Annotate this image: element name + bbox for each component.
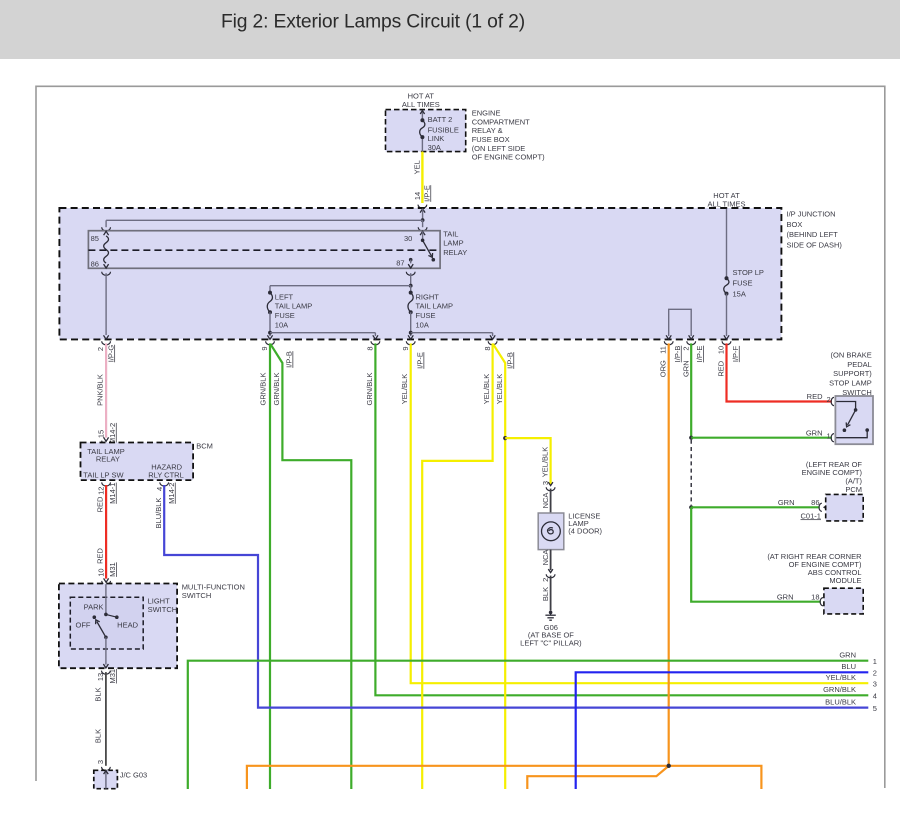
svg-text:12: 12 xyxy=(96,487,105,495)
svg-text:GRN/BLK: GRN/BLK xyxy=(259,373,268,406)
relay K1 contact, pins 30/87 xyxy=(396,231,435,268)
svg-text:GRN/BLK: GRN/BLK xyxy=(365,373,374,406)
connector I/P-E pin 2 exit (green) xyxy=(681,341,704,377)
svg-text:13: 13 xyxy=(96,673,105,681)
svg-text:SWITCH: SWITCH xyxy=(182,591,212,600)
svg-text:5: 5 xyxy=(873,704,877,713)
svg-text:COMPARTMENT: COMPARTMENT xyxy=(472,117,530,126)
svg-text:BOX: BOX xyxy=(787,220,803,229)
stop lamp switch SW1 (ON BRAKE PEDAL SUPPORT) xyxy=(829,350,873,444)
svg-text:STOP LP: STOP LP xyxy=(733,268,764,277)
svg-text:86: 86 xyxy=(91,260,99,269)
svg-text:GRN: GRN xyxy=(777,592,794,601)
wire YEL/BLK pair-B from I/P-B 8 through license lamp tap down to page bottom xyxy=(493,344,505,789)
svg-text:(ON BRAKE: (ON BRAKE xyxy=(831,350,872,359)
wire YEL/BLK from I/P-E 9 to right-edge connector 3 xyxy=(400,343,868,683)
svg-text:ORG: ORG xyxy=(659,360,668,377)
svg-text:RELAY: RELAY xyxy=(96,455,120,464)
svg-text:FUSE: FUSE xyxy=(275,311,295,320)
connector I/P-G pin 2 exit xyxy=(96,341,115,362)
svg-text:30A: 30A xyxy=(428,143,441,152)
svg-text:87: 87 xyxy=(396,258,404,267)
splice S4 on ORG wire xyxy=(667,764,671,768)
wire YEL from fusible link to I/P junction box pin 14 xyxy=(412,152,431,209)
svg-text:85: 85 xyxy=(91,234,99,243)
wire RED from BCM 12 to multi-function switch pin 10 xyxy=(95,485,117,585)
splice S1 on GRN wire xyxy=(689,436,693,440)
svg-text:BLU/BLK: BLU/BLK xyxy=(154,498,163,529)
svg-text:BCM: BCM xyxy=(196,441,213,450)
wire relay pin 87 to tail lamp fuses xyxy=(406,272,415,286)
svg-text:2: 2 xyxy=(541,578,550,582)
node B: fuse feed split xyxy=(409,284,413,288)
lamp E1 LICENSE LAMP (4 DOOR) xyxy=(538,512,602,550)
svg-text:RELAY &: RELAY & xyxy=(472,126,503,135)
module PCM (A/T, LEFT REAR OF ENGINE COMPT) xyxy=(802,460,864,521)
wire PNK/BLK from I/P-G 2 to BCM pin 15 xyxy=(96,343,117,444)
wire relay pin 86 to I/P-G exit xyxy=(102,272,111,340)
svg-text:TAIL LAMP: TAIL LAMP xyxy=(275,302,313,311)
svg-text:LEFT "C" PILLAR): LEFT "C" PILLAR) xyxy=(520,638,582,647)
svg-text:TAIL: TAIL xyxy=(443,230,458,239)
bus link inside I/P box (pins 11 and 2) xyxy=(666,309,694,339)
wire ORG from splice S4 right branch down xyxy=(669,766,762,789)
MFS pin 13 exit M31 xyxy=(96,669,117,684)
svg-text:GRN/BLK: GRN/BLK xyxy=(272,373,281,406)
svg-text:PNK/BLK: PNK/BLK xyxy=(96,374,105,406)
svg-text:ALL TIMES: ALL TIMES xyxy=(708,199,746,208)
wire YEL/BLK from splice S3 to license lamp connector 3 xyxy=(505,438,555,491)
svg-text:9: 9 xyxy=(401,346,410,350)
svg-text:2: 2 xyxy=(827,395,831,404)
svg-text:LINK: LINK xyxy=(428,134,445,143)
module BCM (body control module) xyxy=(81,441,213,480)
wire GRN/BLK from pin 8 to right-edge connector 4 xyxy=(365,343,868,695)
svg-text:30: 30 xyxy=(404,234,412,243)
svg-text:M14-2: M14-2 xyxy=(108,423,117,444)
svg-text:I/P-E: I/P-E xyxy=(422,185,431,202)
wire GRN from splice S2 to ABS control module pin 18 xyxy=(691,507,829,606)
svg-text:HEAD: HEAD xyxy=(117,621,138,630)
svg-text:FUSE BOX: FUSE BOX xyxy=(472,135,510,144)
label HOT AT ALL TIMES (stop lp fuse feed) xyxy=(708,191,746,208)
svg-text:RELAY: RELAY xyxy=(443,248,467,257)
wire BLK from MFS 13 to junction connector G03 xyxy=(94,672,111,770)
svg-text:Fig 2: Exterior Lamps Circuit: Fig 2: Exterior Lamps Circuit (1 of 2) xyxy=(221,12,525,33)
svg-text:18: 18 xyxy=(811,592,819,601)
svg-text:(ON LEFT SIDE: (ON LEFT SIDE xyxy=(472,144,526,153)
svg-text:FUSE: FUSE xyxy=(733,279,753,288)
light switch (inner detail of SW2) xyxy=(70,597,177,649)
svg-text:STOP LAMP: STOP LAMP xyxy=(829,379,872,388)
svg-text:BLK: BLK xyxy=(94,687,103,701)
svg-text:J/C G03: J/C G03 xyxy=(120,770,148,779)
svg-text:11: 11 xyxy=(659,346,668,354)
svg-text:10: 10 xyxy=(96,568,105,576)
svg-text:RED: RED xyxy=(807,392,823,401)
I/P junction box (dashed enclosure) xyxy=(59,208,781,339)
relay K1 coil, pins 85/86 xyxy=(91,231,109,268)
svg-text:SWITCH: SWITCH xyxy=(148,605,178,614)
fuse-box: engine compartment relay &amp; fuse box (BATT 2 fusible link) xyxy=(386,110,466,152)
svg-text:M31: M31 xyxy=(108,562,117,577)
wire GRN/BLK left-A from I/P-B 9 down to page bottom xyxy=(259,343,270,789)
svg-text:BATT 2: BATT 2 xyxy=(428,115,453,124)
svg-text:RED: RED xyxy=(717,360,726,376)
svg-text:LAMP: LAMP xyxy=(443,239,463,248)
switch SW2 MULTI-FUNCTION SWITCH xyxy=(59,583,245,669)
connector I/P-B pin 8 exit (yellow pair) xyxy=(483,341,515,369)
fuse F3 RIGHT TAIL LAMP FUSE 10A xyxy=(408,286,453,330)
svg-text:OFF: OFF xyxy=(76,621,91,630)
fuse F2 LEFT TAIL LAMP FUSE 10A xyxy=(267,291,312,330)
svg-text:14: 14 xyxy=(413,192,422,200)
svg-text:4: 4 xyxy=(155,487,164,491)
svg-text:86: 86 xyxy=(811,498,819,507)
svg-text:BLK: BLK xyxy=(94,729,103,743)
BCM pin 4 exit M14-2 xyxy=(155,482,176,503)
svg-text:GRN: GRN xyxy=(778,498,795,507)
svg-text:TAIL LP SW: TAIL LP SW xyxy=(83,471,124,480)
wire NCA from connector 3 to license lamp xyxy=(541,489,550,513)
wire GRN to right-edge connector 1 xyxy=(188,650,869,789)
wire from node A to relay pin 85 xyxy=(102,220,423,231)
svg-text:GRN/BLK: GRN/BLK xyxy=(823,685,856,694)
connector I/P-B pin 11 exit (orange) xyxy=(659,341,682,377)
svg-text:YEL/BLK: YEL/BLK xyxy=(495,374,504,404)
svg-text:2: 2 xyxy=(96,347,105,351)
svg-text:RED: RED xyxy=(95,548,104,564)
svg-text:10A: 10A xyxy=(416,321,429,330)
svg-text:GRN: GRN xyxy=(681,360,690,377)
junction connector J/C G03 xyxy=(94,770,147,788)
module ABS CONTROL MODULE (AT RIGHT REAR CORNER OF ENGINE COMPT) xyxy=(767,552,863,614)
pin 1 of stop lamp switch xyxy=(827,432,840,442)
wire BLK from connector 2 to ground G06 xyxy=(541,576,550,611)
svg-text:M14-2: M14-2 xyxy=(167,483,176,504)
svg-text:YEL: YEL xyxy=(412,160,421,174)
svg-text:FUSIBLE: FUSIBLE xyxy=(428,125,459,134)
svg-text:GRN: GRN xyxy=(839,650,856,659)
ground G06 (AT BASE OF LEFT "C" PILLAR) xyxy=(520,611,582,648)
svg-text:(4 DOOR): (4 DOOR) xyxy=(568,527,602,536)
label HOT AT ALL TIMES (battery feed) xyxy=(402,92,440,109)
svg-text:9: 9 xyxy=(260,346,269,350)
wire GRN from splice S2 to PCM pin 86 xyxy=(691,498,828,520)
connector I/P-B pin 9 exit (left tail lamps) xyxy=(260,341,294,368)
label ENGINE COMPARTMENT RELAY &amp; FUSE BOX location xyxy=(472,109,545,162)
svg-text:NCA: NCA xyxy=(541,550,550,566)
light switch contacts and wiper xyxy=(93,584,119,668)
wire NCA from license lamp to connector 2 xyxy=(541,550,555,582)
title bar xyxy=(0,0,900,59)
svg-text:RIGHT: RIGHT xyxy=(416,292,440,301)
relay K1 TAIL LAMP RELAY (body) xyxy=(88,230,467,269)
svg-text:PARK: PARK xyxy=(84,603,104,612)
wire from node A down to relay pin 30 xyxy=(418,220,427,231)
svg-text:(BEHIND LEFT: (BEHIND LEFT xyxy=(787,230,839,239)
wire GRN from splice S1 to stop lamp switch pin 1 xyxy=(691,428,832,437)
svg-text:ALL TIMES: ALL TIMES xyxy=(402,100,440,109)
svg-text:M31: M31 xyxy=(108,669,117,684)
svg-text:SUPPORT): SUPPORT) xyxy=(833,369,872,378)
svg-text:RED: RED xyxy=(95,496,104,512)
svg-text:YEL/BLK: YEL/BLK xyxy=(482,374,491,404)
wire RED from I/P-F 10 to stop lamp switch pin 2 xyxy=(727,343,833,401)
svg-text:3: 3 xyxy=(873,679,877,688)
svg-text:2: 2 xyxy=(681,346,690,350)
fuse F1 BATT 2 FUSIBLE LINK 30A xyxy=(420,115,459,152)
connector I/P-E pin 9 exit (yellow) xyxy=(401,341,425,369)
svg-text:I/P-B: I/P-B xyxy=(505,352,514,369)
wire YEL/BLK pair-A from I/P-B 8, jogs left then down to page bottom xyxy=(422,343,492,789)
svg-text:15: 15 xyxy=(96,430,105,438)
svg-text:YEL/BLK: YEL/BLK xyxy=(541,447,550,477)
svg-text:I/P-F: I/P-F xyxy=(731,345,740,362)
svg-text:TAIL LAMP: TAIL LAMP xyxy=(416,302,454,311)
svg-text:3: 3 xyxy=(96,760,105,764)
svg-text:8: 8 xyxy=(366,346,375,350)
node C: left fuse output split to pins 9/8 xyxy=(267,312,378,339)
svg-text:YEL/BLK: YEL/BLK xyxy=(400,374,409,404)
svg-text:GRN: GRN xyxy=(806,428,823,437)
splice S2 on GRN wire xyxy=(689,505,693,509)
svg-text:YEL/BLK: YEL/BLK xyxy=(826,673,856,682)
svg-text:PEDAL: PEDAL xyxy=(847,360,872,369)
svg-text:C01-1: C01-1 xyxy=(801,511,821,520)
wire ORG from splice S4 left branch down xyxy=(247,766,669,789)
svg-text:BLU: BLU xyxy=(841,662,856,671)
node A: junction of pin-14 feed with relay coil and contact 30 xyxy=(420,209,425,222)
svg-text:OF ENGINE COMPT): OF ENGINE COMPT) xyxy=(472,153,545,162)
svg-text:M14-1: M14-1 xyxy=(108,483,117,504)
svg-text:I/P JUNCTION: I/P JUNCTION xyxy=(787,209,836,218)
svg-text:I/P-E: I/P-E xyxy=(695,346,704,363)
label I/P JUNCTION BOX (BEHIND LEFT SIDE OF DASH) xyxy=(787,209,843,249)
splice S3 on YEL/BLK wire (license lamp tap) xyxy=(503,436,507,440)
pin 2 of stop lamp switch xyxy=(827,395,840,406)
svg-text:I/P-B: I/P-B xyxy=(284,351,293,368)
svg-text:1: 1 xyxy=(827,432,831,441)
svg-text:NCA: NCA xyxy=(541,493,550,509)
wire node B to left tail lamp fuse xyxy=(270,286,411,293)
svg-text:I/P-G: I/P-G xyxy=(106,345,115,363)
wire stub inside fusible link box xyxy=(420,110,424,151)
svg-text:2: 2 xyxy=(873,669,877,678)
svg-text:8: 8 xyxy=(483,346,492,350)
wire GRN from I/P-E 2 down to splice S1 xyxy=(690,343,692,437)
svg-text:ENGINE: ENGINE xyxy=(472,109,501,118)
svg-text:BLU/BLK: BLU/BLK xyxy=(825,697,856,706)
svg-text:1: 1 xyxy=(873,657,877,666)
svg-text:SIDE OF DASH): SIDE OF DASH) xyxy=(787,241,843,250)
svg-text:RLY CTRL: RLY CTRL xyxy=(148,471,184,480)
node D: right fuse output split to pins 9/8 xyxy=(408,312,495,339)
fuse F4 STOP LP FUSE 15A xyxy=(724,209,764,339)
svg-text:15A: 15A xyxy=(733,289,746,298)
svg-text:MODULE: MODULE xyxy=(829,576,861,585)
connector pin 8 exit (rear green) xyxy=(366,341,380,350)
connector I/P-F pin 10 exit (red) xyxy=(717,341,740,376)
svg-text:BLK: BLK xyxy=(541,587,550,601)
svg-text:4: 4 xyxy=(873,692,877,701)
svg-text:10: 10 xyxy=(717,346,726,354)
svg-text:PCM: PCM xyxy=(845,485,862,494)
wire BLU/BLK from BCM 4 to right-edge connector 5 xyxy=(154,485,869,708)
svg-text:I/P-E: I/P-E xyxy=(415,352,424,369)
wire BLU from right-edge connector 2 down to page bottom xyxy=(576,662,869,789)
svg-text:10A: 10A xyxy=(275,321,288,330)
wire GRN/BLK left-B from I/P-B 9, jogs right then down xyxy=(270,344,351,789)
svg-text:LEFT: LEFT xyxy=(275,292,294,301)
svg-text:FUSE: FUSE xyxy=(416,311,436,320)
wire ORG from I/P-B 11 down to splice xyxy=(668,343,670,765)
BCM pin 12 exit M14-1 xyxy=(96,482,117,503)
wire ORG diagonal tap from splice S4 to lower-left branch xyxy=(527,767,668,789)
hidden-wire dashed link from splice S1 to splice S2 xyxy=(690,440,692,505)
